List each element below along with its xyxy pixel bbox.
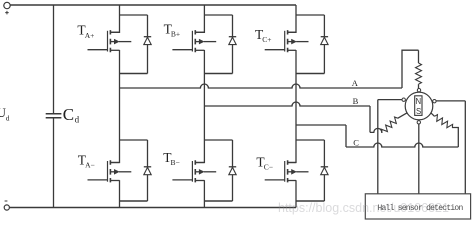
wire source-diode join B- <box>204 200 232 202</box>
svg-text:B−: B− <box>171 158 180 167</box>
svg-text:C+: C+ <box>262 35 271 44</box>
svg-text:C: C <box>353 138 359 148</box>
wire source lead TA+ <box>119 50 121 74</box>
wire source lead TC- <box>295 180 297 201</box>
wire source-diode join C+ <box>296 73 324 75</box>
wire bottom rail <box>9 207 296 209</box>
wire hall sensor right <box>434 101 465 194</box>
wire phase B to winding <box>370 128 383 132</box>
svg-text:A−: A− <box>85 161 95 170</box>
winding phase B (resistor) <box>380 116 400 135</box>
wire hall sensor left <box>378 100 404 194</box>
wire source-diode join C- <box>296 200 324 202</box>
wire leg to bottom rail B <box>203 201 205 208</box>
wire phase leg B <box>203 74 205 141</box>
wire leg to bottom rail A <box>119 201 121 208</box>
transistor TA+ <box>88 49 108 51</box>
transistor TA- <box>88 179 108 181</box>
svg-text:C−: C− <box>264 163 273 172</box>
wire phase B output <box>204 102 370 106</box>
svg-text:A: A <box>352 78 359 88</box>
svg-text:B+: B+ <box>171 30 180 39</box>
wire source-diode join B+ <box>204 73 232 75</box>
svg-text:A+: A+ <box>85 31 95 40</box>
wire diode branch bottom A- <box>120 140 148 201</box>
diode DB- <box>229 166 236 168</box>
wire drain riser TB- <box>195 140 204 163</box>
capacitor Cd <box>46 114 62 118</box>
wire source-diode join A+ <box>120 73 148 75</box>
wire source lead TB- <box>203 180 205 201</box>
svg-text:d: d <box>6 113 10 122</box>
transistor TB+ <box>172 49 192 51</box>
svg-text:https://blog.csdn.net/u0106321: https://blog.csdn.net/u0106321 <box>278 201 449 215</box>
wire source lead TC+ <box>295 50 297 74</box>
svg-text:N: N <box>416 97 422 106</box>
terminal + (positive DC input) <box>4 2 10 8</box>
diode DB+ <box>229 36 236 38</box>
wire top rail <box>10 4 296 6</box>
wire phase leg A <box>119 74 121 141</box>
wire DC bus lower <box>53 118 55 208</box>
wire phase A riser to winding <box>402 50 419 88</box>
motor terminal left <box>402 98 405 101</box>
diode DA- <box>144 166 151 168</box>
svg-text:C: C <box>63 105 74 124</box>
transistor TC- <box>265 179 285 181</box>
wire DC bus upper <box>53 5 55 114</box>
winding phase C (resistor) <box>430 112 434 116</box>
motor terminal right <box>433 100 436 103</box>
wire phase C riser to winding <box>452 128 458 148</box>
motor terminal top <box>417 89 420 92</box>
wire phase leg C <box>295 74 297 141</box>
svg-text:B: B <box>353 96 359 106</box>
transistor TC+ <box>265 49 285 51</box>
hall sensor detection box <box>365 194 470 219</box>
svg-text:S: S <box>416 107 421 116</box>
diode DC- <box>321 166 328 168</box>
wire hall sensor middle <box>418 122 420 194</box>
winding phase A (resistor) <box>416 63 422 84</box>
svg-text:d: d <box>75 115 80 125</box>
wire diode branch bottom C- <box>296 140 324 201</box>
transistor TB- <box>172 179 192 181</box>
wire drain riser TC+ <box>288 5 296 32</box>
motor body (BLDC rotor) <box>405 92 433 120</box>
wire phase A output <box>120 84 403 88</box>
wire diode branch top A+ <box>120 15 148 74</box>
diode DC+ <box>321 36 328 38</box>
wire leg to bottom rail C <box>295 201 297 208</box>
wire source lead TA- <box>119 180 121 201</box>
motor terminal bottom <box>417 121 420 124</box>
wire phase B drop <box>369 106 371 132</box>
wire phase C output <box>296 125 346 147</box>
wire drain riser TB+ <box>195 5 204 32</box>
wire drain riser TA+ <box>110 5 119 32</box>
wire diode branch bottom B- <box>204 140 232 201</box>
wire phase C run <box>346 143 458 147</box>
wire diode branch top C+ <box>296 15 324 74</box>
wire drain riser TA- <box>110 140 119 163</box>
wire source-diode join A- <box>120 200 148 202</box>
wire drain riser TC- <box>288 140 296 163</box>
wire source lead TB+ <box>203 50 205 74</box>
terminal - (negative DC input) <box>4 205 9 210</box>
wire diode branch top B+ <box>204 15 232 74</box>
diode DA+ <box>144 36 151 38</box>
